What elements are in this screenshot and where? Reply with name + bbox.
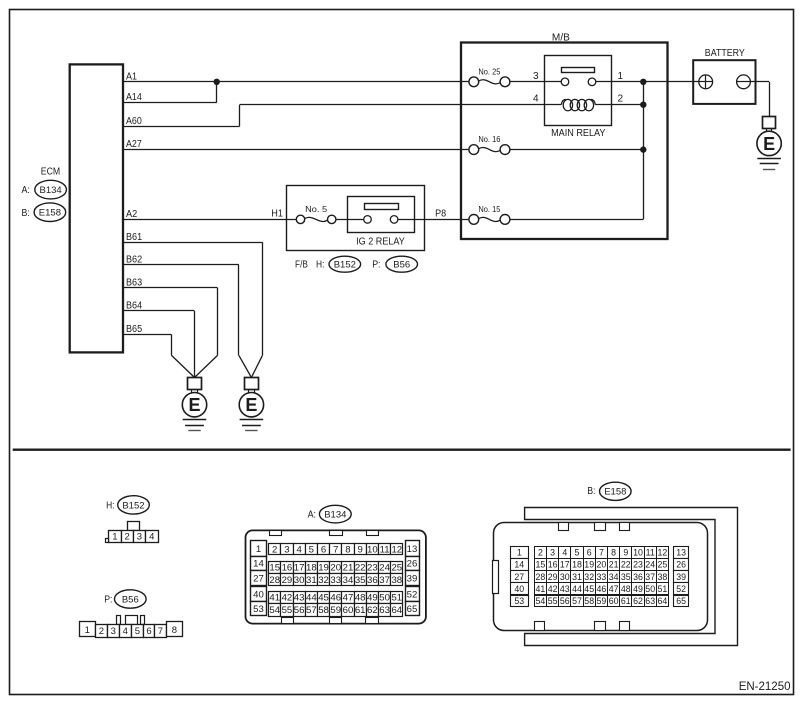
svg-text:49: 49 xyxy=(633,584,643,594)
svg-text:21: 21 xyxy=(609,560,619,570)
svg-text:18: 18 xyxy=(572,560,582,570)
svg-text:A:: A: xyxy=(308,510,316,521)
svg-text:31: 31 xyxy=(572,572,582,582)
svg-text:28: 28 xyxy=(269,575,280,586)
svg-text:27: 27 xyxy=(253,574,264,585)
svg-text:30: 30 xyxy=(294,575,305,586)
svg-text:65: 65 xyxy=(676,596,686,606)
svg-text:33: 33 xyxy=(597,572,607,582)
svg-text:56: 56 xyxy=(294,605,305,616)
svg-text:12: 12 xyxy=(391,544,402,555)
svg-text:43: 43 xyxy=(294,593,305,604)
svg-text:50: 50 xyxy=(379,593,390,604)
svg-text:8: 8 xyxy=(611,548,616,558)
svg-text:E: E xyxy=(245,395,257,415)
svg-text:1: 1 xyxy=(517,548,522,558)
svg-text:33: 33 xyxy=(330,575,341,586)
svg-text:23: 23 xyxy=(367,563,378,574)
svg-text:25: 25 xyxy=(391,563,402,574)
svg-text:1: 1 xyxy=(85,625,90,636)
svg-text:24: 24 xyxy=(379,563,390,574)
svg-text:29: 29 xyxy=(548,572,558,582)
svg-text:36: 36 xyxy=(633,572,643,582)
svg-text:4: 4 xyxy=(533,94,539,105)
svg-text:40: 40 xyxy=(514,584,524,594)
svg-text:1: 1 xyxy=(618,71,624,82)
svg-text:B134: B134 xyxy=(40,185,62,196)
svg-text:11: 11 xyxy=(646,548,655,558)
svg-text:39: 39 xyxy=(407,574,418,585)
svg-text:54: 54 xyxy=(269,605,280,616)
svg-text:A2: A2 xyxy=(126,209,138,220)
svg-text:32: 32 xyxy=(318,575,329,586)
svg-text:16: 16 xyxy=(548,560,558,570)
svg-text:5: 5 xyxy=(309,544,314,555)
svg-text:5: 5 xyxy=(135,626,140,637)
svg-text:No. 5: No. 5 xyxy=(305,205,327,214)
svg-text:E158: E158 xyxy=(39,208,61,219)
svg-text:46: 46 xyxy=(597,584,607,594)
svg-text:3: 3 xyxy=(137,532,142,543)
svg-text:34: 34 xyxy=(343,575,354,586)
svg-text:37: 37 xyxy=(645,572,655,582)
svg-text:49: 49 xyxy=(367,593,378,604)
svg-text:42: 42 xyxy=(548,584,558,594)
svg-text:8: 8 xyxy=(172,625,177,636)
svg-text:64: 64 xyxy=(658,596,668,606)
svg-text:2: 2 xyxy=(99,626,104,637)
svg-text:MAIN RELAY: MAIN RELAY xyxy=(551,128,606,139)
svg-text:27: 27 xyxy=(514,572,524,582)
svg-text:B56: B56 xyxy=(122,594,139,605)
svg-text:F/B: F/B xyxy=(295,260,308,271)
svg-text:2: 2 xyxy=(538,548,543,558)
svg-text:5: 5 xyxy=(575,548,580,558)
svg-text:19: 19 xyxy=(318,563,329,574)
svg-text:37: 37 xyxy=(379,575,390,586)
svg-text:36: 36 xyxy=(367,575,378,586)
svg-text:53: 53 xyxy=(514,596,524,606)
svg-text:44: 44 xyxy=(572,584,582,594)
svg-text:1: 1 xyxy=(256,544,261,555)
svg-text:13: 13 xyxy=(407,544,418,555)
svg-text:6: 6 xyxy=(321,544,326,555)
svg-text:6: 6 xyxy=(587,548,592,558)
svg-text:20: 20 xyxy=(597,560,607,570)
svg-text:21: 21 xyxy=(343,563,354,574)
svg-text:31: 31 xyxy=(306,575,317,586)
svg-text:7: 7 xyxy=(158,626,163,637)
svg-text:B134: B134 xyxy=(324,510,346,521)
svg-text:32: 32 xyxy=(584,572,594,582)
svg-text:A1: A1 xyxy=(126,71,137,82)
svg-text:28: 28 xyxy=(536,572,546,582)
svg-text:4: 4 xyxy=(562,548,567,558)
svg-text:No. 15: No. 15 xyxy=(478,205,500,214)
svg-text:45: 45 xyxy=(584,584,594,594)
svg-text:IG 2 RELAY: IG 2 RELAY xyxy=(356,237,405,248)
svg-text:22: 22 xyxy=(621,560,631,570)
svg-text:58: 58 xyxy=(584,596,594,606)
svg-text:2: 2 xyxy=(618,94,624,105)
svg-text:3: 3 xyxy=(111,626,116,637)
svg-text:E: E xyxy=(763,134,775,154)
svg-text:56: 56 xyxy=(560,596,570,606)
svg-text:50: 50 xyxy=(645,584,655,594)
svg-text:15: 15 xyxy=(536,560,546,570)
svg-text:B:: B: xyxy=(587,486,595,497)
svg-text:60: 60 xyxy=(609,596,619,606)
svg-text:62: 62 xyxy=(633,596,643,606)
svg-text:EN-21250: EN-21250 xyxy=(739,681,791,693)
svg-text:64: 64 xyxy=(391,605,402,616)
svg-text:26: 26 xyxy=(407,559,418,570)
svg-text:P:: P: xyxy=(372,260,380,271)
svg-text:25: 25 xyxy=(658,560,668,570)
svg-text:60: 60 xyxy=(343,605,354,616)
svg-text:H:: H: xyxy=(316,260,324,271)
svg-text:4: 4 xyxy=(123,626,128,637)
svg-text:47: 47 xyxy=(609,584,619,594)
svg-text:44: 44 xyxy=(306,593,317,604)
svg-text:P8: P8 xyxy=(435,208,446,219)
svg-text:19: 19 xyxy=(584,560,594,570)
svg-text:22: 22 xyxy=(355,563,366,574)
svg-text:30: 30 xyxy=(560,572,570,582)
svg-text:A:: A: xyxy=(22,185,30,196)
svg-text:55: 55 xyxy=(548,596,558,606)
svg-text:11: 11 xyxy=(380,544,390,555)
svg-text:46: 46 xyxy=(330,593,341,604)
svg-text:No. 25: No. 25 xyxy=(478,67,500,76)
svg-text:57: 57 xyxy=(572,596,582,606)
svg-text:20: 20 xyxy=(330,563,341,574)
svg-text:51: 51 xyxy=(391,593,402,604)
svg-text:1: 1 xyxy=(112,532,117,543)
svg-text:E: E xyxy=(188,395,200,415)
svg-text:59: 59 xyxy=(330,605,341,616)
svg-text:41: 41 xyxy=(536,584,546,594)
svg-text:BATTERY: BATTERY xyxy=(705,48,745,59)
svg-text:7: 7 xyxy=(599,548,604,558)
svg-text:B65: B65 xyxy=(126,324,142,335)
svg-text:14: 14 xyxy=(514,560,524,570)
svg-text:53: 53 xyxy=(253,604,264,615)
svg-text:A60: A60 xyxy=(126,116,142,127)
svg-text:15: 15 xyxy=(269,563,280,574)
svg-text:6: 6 xyxy=(146,626,151,637)
svg-text:63: 63 xyxy=(645,596,655,606)
svg-text:4: 4 xyxy=(296,544,302,555)
svg-text:43: 43 xyxy=(560,584,570,594)
svg-text:H1: H1 xyxy=(271,208,283,219)
svg-text:41: 41 xyxy=(269,593,280,604)
svg-text:7: 7 xyxy=(333,544,338,555)
svg-text:39: 39 xyxy=(676,572,686,582)
svg-text:No. 16: No. 16 xyxy=(478,135,500,144)
svg-text:B152: B152 xyxy=(122,500,144,511)
svg-text:ECM: ECM xyxy=(41,167,60,178)
svg-text:52: 52 xyxy=(407,590,418,601)
svg-text:29: 29 xyxy=(282,575,293,586)
svg-text:10: 10 xyxy=(367,544,378,555)
svg-text:57: 57 xyxy=(306,605,317,616)
svg-text:35: 35 xyxy=(355,575,366,586)
svg-text:4: 4 xyxy=(149,532,154,543)
svg-text:40: 40 xyxy=(253,590,264,601)
svg-text:16: 16 xyxy=(282,563,293,574)
svg-text:58: 58 xyxy=(318,605,329,616)
svg-text:17: 17 xyxy=(560,560,570,570)
svg-text:61: 61 xyxy=(355,605,366,616)
svg-text:55: 55 xyxy=(282,605,293,616)
svg-text:52: 52 xyxy=(676,584,686,594)
svg-text:B64: B64 xyxy=(126,301,142,312)
svg-text:13: 13 xyxy=(676,548,686,558)
svg-text:18: 18 xyxy=(306,563,317,574)
svg-text:3: 3 xyxy=(550,548,555,558)
svg-text:65: 65 xyxy=(407,604,418,615)
svg-text:45: 45 xyxy=(318,593,329,604)
svg-text:H:: H: xyxy=(106,501,114,512)
svg-text:54: 54 xyxy=(536,596,546,606)
svg-text:E158: E158 xyxy=(604,487,626,498)
svg-text:48: 48 xyxy=(355,593,366,604)
svg-text:B152: B152 xyxy=(334,260,356,271)
svg-text:51: 51 xyxy=(658,584,668,594)
svg-text:38: 38 xyxy=(658,572,668,582)
svg-text:9: 9 xyxy=(623,548,628,558)
svg-text:63: 63 xyxy=(379,605,390,616)
svg-text:3: 3 xyxy=(533,71,539,82)
svg-text:34: 34 xyxy=(609,572,619,582)
svg-text:B56: B56 xyxy=(393,260,410,271)
svg-text:24: 24 xyxy=(645,560,655,570)
svg-text:P:: P: xyxy=(104,595,112,606)
svg-text:B63: B63 xyxy=(126,277,142,288)
svg-text:35: 35 xyxy=(621,572,631,582)
svg-text:61: 61 xyxy=(621,596,631,606)
svg-text:2: 2 xyxy=(272,544,277,555)
svg-text:B:: B: xyxy=(22,208,30,219)
svg-text:M/B: M/B xyxy=(552,33,570,44)
svg-text:B62: B62 xyxy=(126,255,142,266)
svg-text:12: 12 xyxy=(658,548,668,558)
svg-text:9: 9 xyxy=(358,544,363,555)
svg-text:62: 62 xyxy=(367,605,378,616)
svg-text:A27: A27 xyxy=(126,139,142,150)
svg-text:2: 2 xyxy=(125,532,130,543)
svg-text:48: 48 xyxy=(621,584,631,594)
svg-text:26: 26 xyxy=(676,560,686,570)
svg-text:B61: B61 xyxy=(126,232,142,243)
svg-text:14: 14 xyxy=(253,559,264,570)
svg-text:A14: A14 xyxy=(126,92,142,103)
svg-text:42: 42 xyxy=(282,593,293,604)
svg-text:47: 47 xyxy=(343,593,354,604)
svg-text:8: 8 xyxy=(345,544,350,555)
svg-text:38: 38 xyxy=(391,575,402,586)
svg-text:17: 17 xyxy=(294,563,305,574)
svg-text:3: 3 xyxy=(284,544,289,555)
svg-text:10: 10 xyxy=(633,548,643,558)
svg-text:23: 23 xyxy=(633,560,643,570)
svg-text:59: 59 xyxy=(597,596,607,606)
